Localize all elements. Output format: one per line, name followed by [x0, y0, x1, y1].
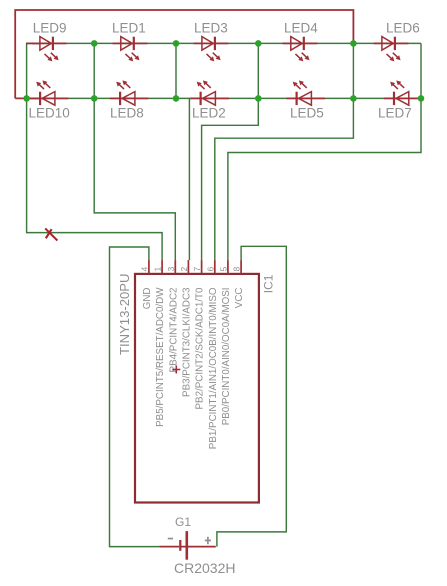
junction — [255, 40, 262, 47]
svg-text:LED5: LED5 — [290, 106, 324, 121]
wire row2 cathode bus — [27, 97, 421, 99]
svg-text:2: 2 — [179, 267, 189, 272]
svg-text:TINY13-20PU: TINY13-20PU — [117, 274, 132, 356]
svg-text:LED1: LED1 — [112, 21, 146, 36]
svg-text:LED8: LED8 — [110, 106, 144, 121]
svg-text:VCC: VCC — [234, 288, 245, 309]
wire red LED9 left pin to corner — [26, 42, 41, 44]
svg-text:GND: GND — [142, 288, 153, 310]
junction — [173, 95, 180, 102]
pin 1 stub — [161, 260, 163, 274]
svg-text:8: 8 — [232, 267, 242, 272]
svg-text:5: 5 — [218, 267, 228, 272]
wire net to pin 1 — [27, 43, 163, 260]
LED LED5 — [286, 80, 325, 105]
pin 3 stub — [174, 260, 176, 274]
svg-text:LED4: LED4 — [284, 21, 318, 36]
battery minus sign — [168, 538, 173, 540]
pin 5 stub — [227, 260, 229, 274]
LED LED4 — [283, 37, 318, 62]
junction — [350, 40, 357, 47]
svg-text:PB1/PCINT1/AIN1/OC0B/INT0/MISO: PB1/PCINT1/AIN1/OC0B/INT0/MISO — [208, 287, 219, 449]
battery G1 — [159, 531, 216, 560]
battery plus sign — [205, 537, 211, 544]
svg-text:1: 1 — [153, 267, 163, 272]
wire net to pin 5 — [228, 43, 421, 260]
wire net to pin 3 — [94, 98, 175, 260]
svg-text:LED3: LED3 — [194, 21, 228, 36]
wire column connector — [93, 43, 95, 98]
wire column connector — [175, 43, 177, 98]
wire VCC net pin 8 to battery plus — [217, 246, 286, 546]
wire GND net pin 4 to battery minus — [110, 247, 160, 547]
svg-text:G1: G1 — [175, 515, 191, 529]
wire column connector — [352, 43, 354, 98]
LED LED6 — [374, 37, 409, 62]
wire column connector — [257, 43, 259, 98]
svg-text:LED6: LED6 — [386, 21, 420, 36]
svg-text:PB2/PCINT2/SCK/ADC1/T0: PB2/PCINT2/SCK/ADC1/T0 — [195, 287, 206, 410]
pin 6 stub — [214, 260, 216, 274]
svg-text:PB3/PCINT3/CLKI/ADC3: PB3/PCINT3/CLKI/ADC3 — [181, 287, 192, 397]
junction — [418, 95, 425, 102]
svg-text:PB4/PCINT4/ADC2: PB4/PCINT4/ADC2 — [168, 288, 179, 373]
junction — [23, 95, 30, 102]
junction — [255, 95, 262, 102]
LED LED8 — [110, 80, 148, 105]
IC origin cross — [172, 366, 180, 374]
LED LED3 — [194, 37, 229, 62]
pin 2 stub — [187, 260, 189, 274]
wire row1 anode bus — [27, 42, 421, 44]
LED LED7 — [384, 80, 423, 105]
junction — [350, 95, 357, 102]
LED LED10 — [30, 80, 69, 105]
svg-text:4: 4 — [139, 267, 149, 272]
svg-text:7: 7 — [192, 267, 202, 272]
pin 8 stub — [240, 260, 242, 274]
svg-text:LED10: LED10 — [29, 106, 70, 121]
svg-text:LED9: LED9 — [33, 21, 67, 36]
svg-text:PB0/PCINT0/AIN0/OC0A/MOSI: PB0/PCINT0/AIN0/OC0A/MOSI — [221, 288, 232, 426]
junction — [173, 40, 180, 47]
svg-text:IC1: IC1 — [262, 274, 276, 293]
LED LED9 — [32, 37, 67, 62]
svg-text:CR2032H: CR2032H — [174, 560, 235, 576]
wire red top loop — [15, 10, 353, 98]
wire red stub to LED10 — [15, 97, 41, 99]
svg-text:3: 3 — [166, 267, 176, 272]
svg-text:6: 6 — [205, 267, 215, 272]
wire net to pin 2 — [188, 98, 190, 260]
wire net to pin 6 — [215, 98, 354, 260]
svg-text:LED2: LED2 — [192, 106, 226, 121]
wire net to pin 7 — [202, 98, 259, 260]
pin 7 stub — [201, 260, 203, 274]
op-amp U1 body IC1 TINY13-20PU — [135, 274, 259, 503]
junction — [91, 40, 98, 47]
LED LED1 — [113, 37, 148, 62]
svg-text:LED7: LED7 — [378, 106, 412, 121]
cross marker — [45, 228, 57, 240]
svg-text:PB5/PCINT5/RESET/ADC0/DW: PB5/PCINT5/RESET/ADC0/DW — [155, 287, 166, 427]
LED LED2 — [190, 80, 229, 105]
pin 4 stub — [148, 260, 150, 274]
junction — [91, 95, 98, 102]
